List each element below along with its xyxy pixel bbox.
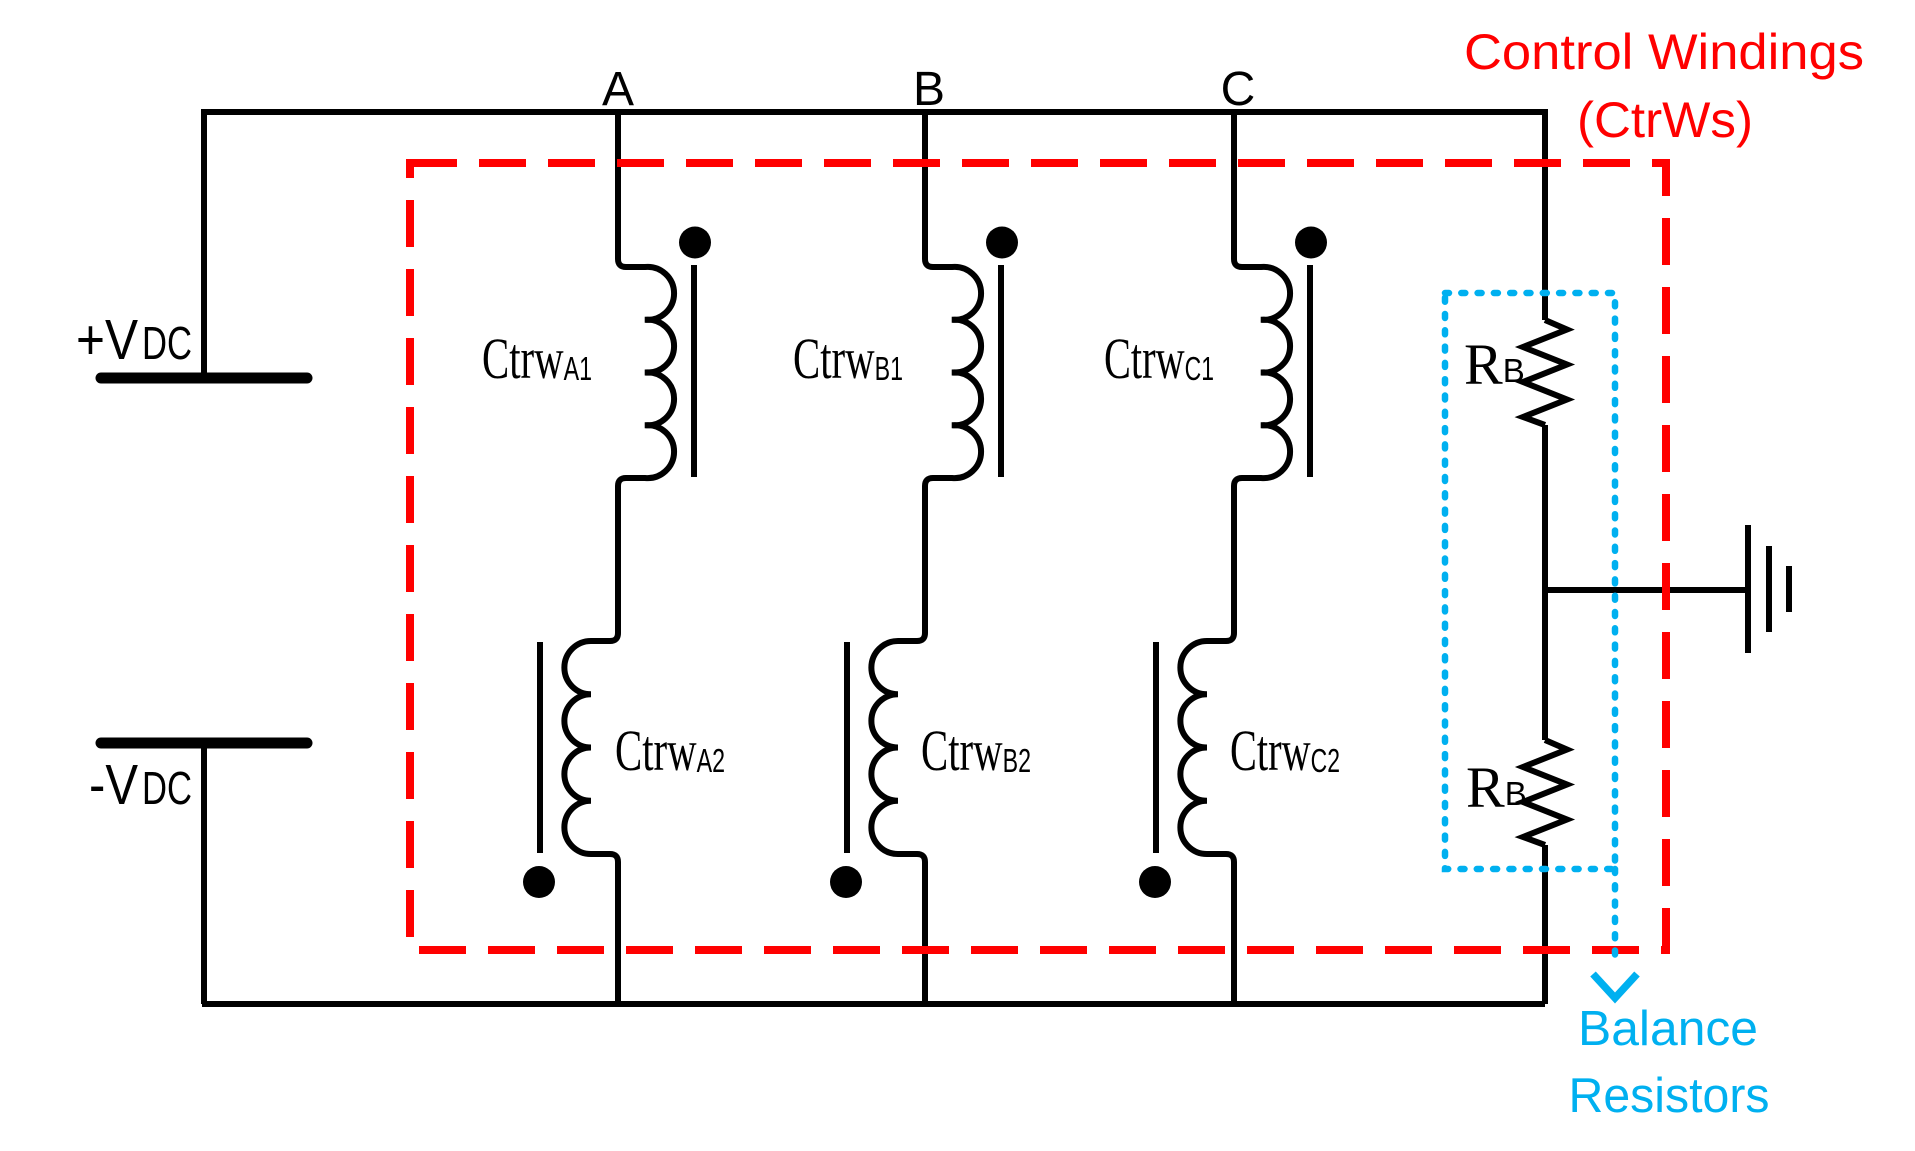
wire top bus	[202, 109, 1545, 115]
svg-text:(CtrWs): (CtrWs)	[1577, 92, 1753, 148]
blue arrow shaft	[1612, 869, 1619, 962]
wire right bus upper	[1542, 109, 1548, 320]
inductor CtrwA2 polarity dot	[523, 866, 555, 898]
blue dotted box Balance Resistors	[1445, 293, 1615, 869]
wire +VDC vertical	[201, 109, 207, 378]
svg-text:B: B	[913, 63, 945, 116]
inductor CtrwC1 core bar	[1307, 265, 1313, 477]
svg-text:Balance: Balance	[1578, 1002, 1758, 1056]
label +VDC	[76, 308, 192, 372]
svg-text:Resistors: Resistors	[1569, 1069, 1770, 1123]
svg-text:DC: DC	[142, 762, 192, 814]
wire right bus middle	[1542, 425, 1548, 740]
+VDC terminal bar	[101, 373, 307, 384]
inductor CtrwB1 polarity dot	[986, 227, 1018, 259]
inductor CtrwA1 polarity dot	[679, 227, 711, 259]
red dashed box Control Windings	[410, 163, 1666, 950]
wire phase C with inductor coils CtrwC1 and CtrwC2	[1180, 109, 1290, 1004]
label -VDC	[89, 753, 192, 817]
wire phase A with inductor coils CtrwA1 and CtrwA2	[564, 109, 674, 1004]
blue arrow head	[1593, 974, 1637, 998]
inductor CtrwA1 core bar	[691, 265, 697, 477]
ground bar 2	[1766, 546, 1772, 632]
wire phase B with inductor coils CtrwB1 and CtrwB2	[871, 109, 981, 1004]
inductor CtrwC2 core bar	[1153, 642, 1159, 853]
svg-text:-V: -V	[89, 753, 138, 817]
resistor RB upper	[1523, 320, 1567, 425]
inductor CtrwB2 polarity dot	[830, 866, 862, 898]
wire ground stub	[1545, 587, 1748, 593]
-VDC terminal bar	[101, 738, 307, 749]
svg-text:DC: DC	[142, 317, 192, 369]
inductor CtrwC1 polarity dot	[1295, 227, 1327, 259]
inductor CtrwB1 core bar	[998, 265, 1004, 477]
svg-text:Control Windings: Control Windings	[1464, 24, 1864, 80]
inductor CtrwB2 core bar	[844, 642, 850, 853]
resistor RB lower	[1523, 740, 1567, 845]
ground bar 1	[1745, 525, 1751, 653]
ground bar 3	[1786, 566, 1792, 612]
svg-text:C: C	[1221, 63, 1256, 116]
svg-text:A: A	[602, 63, 634, 116]
inductor CtrwA2 core bar	[537, 642, 543, 853]
wire right bus lower	[1542, 845, 1548, 1004]
svg-text:+V: +V	[76, 308, 138, 372]
wire bottom bus	[202, 1001, 1545, 1007]
wire -VDC vertical	[201, 743, 207, 1004]
inductor CtrwC2 polarity dot	[1139, 866, 1171, 898]
